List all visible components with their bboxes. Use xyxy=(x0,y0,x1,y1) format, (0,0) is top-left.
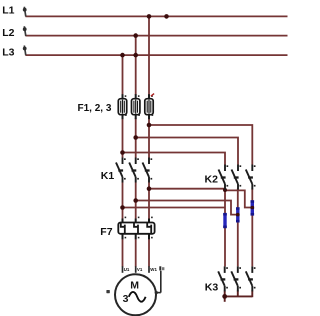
svg-text:K2: K2 xyxy=(205,173,219,185)
svg-text:U1: U1 xyxy=(124,267,130,272)
svg-text:K3: K3 xyxy=(205,281,219,293)
svg-text:F1, 2, 3: F1, 2, 3 xyxy=(78,103,112,114)
svg-text:L1: L1 xyxy=(2,5,14,17)
svg-text:V1: V1 xyxy=(137,267,143,272)
svg-text:F7: F7 xyxy=(100,226,112,238)
svg-text:K1: K1 xyxy=(101,170,115,182)
svg-text:L3: L3 xyxy=(2,47,14,59)
svg-text:W1: W1 xyxy=(150,267,157,272)
svg-text:3: 3 xyxy=(123,293,129,305)
svg-text:L2: L2 xyxy=(2,27,14,39)
svg-text:M: M xyxy=(130,280,139,292)
